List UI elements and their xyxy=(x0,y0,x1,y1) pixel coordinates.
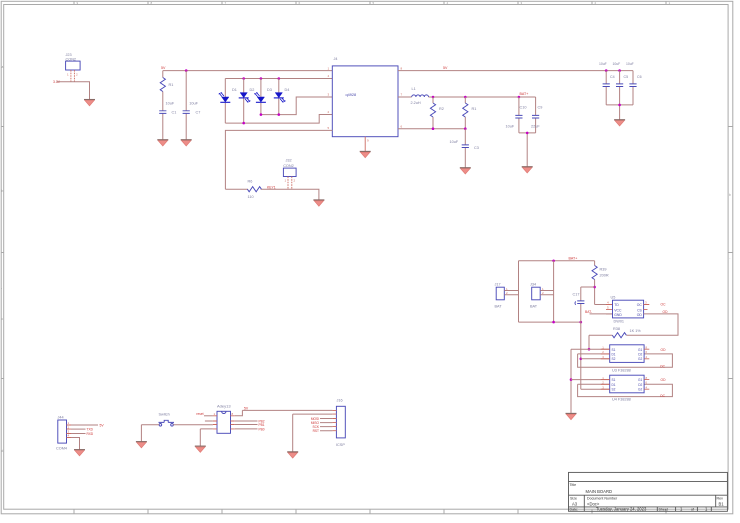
svg-text:J32: J32 xyxy=(286,159,292,163)
svg-text:D2: D2 xyxy=(638,383,642,387)
svg-text:S1: S1 xyxy=(612,378,616,382)
svg-text:1K 1%: 1K 1% xyxy=(630,329,642,333)
svg-text:C10: C10 xyxy=(520,106,527,110)
svg-text:22uF: 22uF xyxy=(531,124,540,128)
svg-text:D2: D2 xyxy=(250,88,255,92)
svg-text:G2: G2 xyxy=(638,388,642,392)
svg-text:10uF: 10uF xyxy=(189,102,198,106)
svg-text:DW01: DW01 xyxy=(614,320,625,324)
svg-text:U4 F38288: U4 F38288 xyxy=(612,398,631,402)
svg-text:b: b xyxy=(2,189,4,193)
svg-text:J16: J16 xyxy=(337,399,343,403)
svg-text:Sheet: Sheet xyxy=(659,508,668,512)
svg-text:MAIN BOARD: MAIN BOARD xyxy=(586,489,613,494)
svg-text:ICSP: ICSP xyxy=(336,443,345,447)
svg-text:R38: R38 xyxy=(613,327,620,331)
svg-text:Adey13: Adey13 xyxy=(217,403,231,408)
svg-text:KEY1: KEY1 xyxy=(267,185,276,189)
svg-text:OD: OD xyxy=(661,348,667,352)
svg-text:R6: R6 xyxy=(248,180,253,184)
svg-text:S2: S2 xyxy=(612,388,616,392)
svg-text:TD: TD xyxy=(614,303,619,307)
svg-text:J4: J4 xyxy=(334,57,338,61)
svg-text:R2: R2 xyxy=(439,107,444,111)
svg-text:COM4: COM4 xyxy=(56,447,67,451)
svg-text:J44: J44 xyxy=(58,415,64,419)
svg-text:D1: D1 xyxy=(232,88,237,92)
svg-text:U5: U5 xyxy=(611,295,616,299)
svg-text:RXD: RXD xyxy=(87,432,94,436)
svg-text:Date:: Date: xyxy=(570,508,579,512)
svg-text:S1: S1 xyxy=(612,348,616,352)
svg-text:R1: R1 xyxy=(169,83,174,87)
svg-text:R1: R1 xyxy=(472,107,477,111)
svg-text:a: a xyxy=(2,65,4,69)
svg-text:OC: OC xyxy=(660,394,666,398)
svg-text:Document Number: Document Number xyxy=(587,497,618,501)
svg-text:OC: OC xyxy=(637,303,643,307)
svg-text:5V: 5V xyxy=(100,424,105,428)
svg-text:BAT: BAT xyxy=(495,305,503,309)
svg-text:200R: 200R xyxy=(600,274,609,278)
svg-text:D2: D2 xyxy=(638,353,642,357)
svg-text:5V: 5V xyxy=(244,406,249,410)
svg-text:C7: C7 xyxy=(196,111,201,115)
svg-text:VCC: VCC xyxy=(614,308,622,312)
svg-text:G2: G2 xyxy=(638,357,642,361)
svg-text:C1: C1 xyxy=(172,111,177,115)
svg-text:Title: Title xyxy=(570,483,577,487)
svg-text:10uF: 10uF xyxy=(626,62,634,66)
svg-text:b: b xyxy=(729,193,731,197)
svg-text:10uF: 10uF xyxy=(613,62,621,66)
svg-text:10uF: 10uF xyxy=(450,140,459,144)
svg-text:.: . xyxy=(730,256,731,260)
svg-text:C6: C6 xyxy=(637,75,642,79)
svg-text:Tuesday, January 24, 2023: Tuesday, January 24, 2023 xyxy=(596,507,647,512)
svg-text:Rev: Rev xyxy=(717,497,724,501)
svg-text:BAT-: BAT- xyxy=(585,310,592,314)
svg-text:GND: GND xyxy=(614,313,622,317)
svg-text:B1: B1 xyxy=(719,502,725,507)
svg-text:PB0: PB0 xyxy=(259,427,265,431)
svg-text:D1: D1 xyxy=(612,353,616,357)
svg-text:BAT: BAT xyxy=(530,305,538,309)
svg-text:d: d xyxy=(2,449,4,453)
svg-text:10uF: 10uF xyxy=(599,62,607,66)
svg-text:U3 F38288: U3 F38288 xyxy=(612,368,631,372)
svg-text:CS: CS xyxy=(637,308,642,312)
svg-text:of: of xyxy=(691,508,694,512)
svg-text:OD: OD xyxy=(663,310,669,314)
svg-text:S2: S2 xyxy=(612,357,616,361)
svg-text:reset: reset xyxy=(196,412,203,416)
svg-text:J23: J23 xyxy=(66,53,72,57)
svg-text:G1: G1 xyxy=(638,378,642,382)
svg-text:BAT+: BAT+ xyxy=(569,257,578,261)
svg-text:10uF: 10uF xyxy=(506,124,515,128)
svg-text:C5: C5 xyxy=(624,75,629,79)
svg-text:Switch: Switch xyxy=(159,413,170,417)
svg-text:2.2uH: 2.2uH xyxy=(411,101,421,105)
svg-text:RST: RST xyxy=(313,429,319,433)
svg-text:J17: J17 xyxy=(495,282,501,286)
svg-text:Size: Size xyxy=(570,497,577,501)
svg-text:BAT+: BAT+ xyxy=(520,92,529,96)
svg-text:D3: D3 xyxy=(267,88,272,92)
svg-text:5V: 5V xyxy=(161,66,166,70)
svg-text:C4: C4 xyxy=(610,75,615,79)
svg-text:C9: C9 xyxy=(538,106,543,110)
svg-text:D1: D1 xyxy=(612,383,616,387)
svg-text:OC: OC xyxy=(661,303,667,307)
svg-text:.: . xyxy=(1,286,2,290)
svg-text:R39: R39 xyxy=(600,268,607,272)
svg-text:CON2: CON2 xyxy=(283,164,294,168)
svg-text:PB1: PB1 xyxy=(259,423,265,427)
svg-text:TXD: TXD xyxy=(87,428,94,432)
svg-text:C17: C17 xyxy=(573,293,580,297)
svg-text:D4: D4 xyxy=(285,88,290,92)
svg-text:C3: C3 xyxy=(474,146,479,150)
svg-text:L1: L1 xyxy=(412,87,416,91)
svg-text:J34: J34 xyxy=(530,282,536,286)
svg-text:G1: G1 xyxy=(638,348,642,352)
svg-text:OD: OD xyxy=(661,378,667,382)
svg-text:10uF: 10uF xyxy=(166,102,175,106)
svg-text:q4928: q4928 xyxy=(346,93,357,97)
svg-text:OD: OD xyxy=(637,313,643,317)
svg-text:5V: 5V xyxy=(443,66,448,70)
svg-text:110: 110 xyxy=(248,195,254,199)
svg-text:OC: OC xyxy=(660,365,666,369)
svg-text:A3: A3 xyxy=(572,502,578,507)
